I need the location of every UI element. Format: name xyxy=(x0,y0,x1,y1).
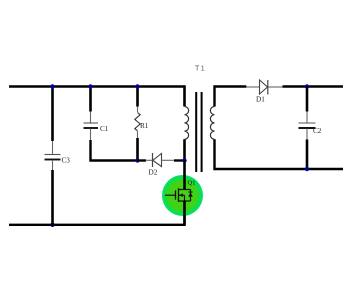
wire source lead xyxy=(183,201,186,225)
wire primary top stub xyxy=(183,85,186,106)
transistor Q1 xyxy=(165,188,193,202)
wire D2 to drain node xyxy=(174,159,185,161)
svg-text:T1: T1 xyxy=(195,66,206,73)
diode D1 xyxy=(246,80,283,95)
wire C3 bottom stub xyxy=(51,170,54,226)
svg-text:D1: D1 xyxy=(256,96,265,104)
svg-text:C1: C1 xyxy=(100,125,109,133)
node top rail junction at R1 xyxy=(135,84,139,88)
transformer T1 core xyxy=(196,92,201,172)
resistor R1 xyxy=(135,107,140,139)
wire secondary bottom stub and bottom-right rail xyxy=(215,139,344,169)
capacitor C3 xyxy=(45,141,61,170)
wire snubber to D2 xyxy=(138,159,147,161)
transformer T1 primary winding xyxy=(185,107,189,140)
wire secondary top stub and top-right rail to D1 xyxy=(215,87,247,107)
diode D2 xyxy=(146,153,176,167)
svg-text:R1: R1 xyxy=(140,122,149,130)
label Q1 xyxy=(188,180,196,187)
node top rail junction at C1 xyxy=(88,84,92,88)
wire C2 top stub xyxy=(306,87,309,112)
highlight circle around Q1 xyxy=(162,175,203,216)
svg-text:Q1: Q1 xyxy=(188,180,196,187)
label T1 xyxy=(195,66,206,73)
node drain junction xyxy=(182,158,186,162)
capacitor C1 xyxy=(84,112,99,141)
wire C2 bottom stub xyxy=(306,140,309,170)
wire R1 top stub xyxy=(136,85,139,106)
node snubber bottom junction xyxy=(135,158,139,162)
wire drain lead xyxy=(183,161,186,190)
wire top-right rail after D1 xyxy=(283,85,344,87)
transformer T1 secondary winding xyxy=(210,107,214,140)
wire primary bottom stub xyxy=(183,139,186,160)
label C2 xyxy=(313,127,322,135)
svg-text:C2: C2 xyxy=(313,127,322,135)
wire C3 top stub xyxy=(51,85,54,141)
svg-text:D2: D2 xyxy=(149,169,158,177)
label D1 xyxy=(256,96,265,104)
capacitor C2 xyxy=(299,112,316,140)
node top rail junction at C3 xyxy=(50,84,54,88)
svg-text:C3: C3 xyxy=(62,157,71,165)
wire C1 top stub xyxy=(89,85,92,111)
label C1 xyxy=(100,125,109,133)
node bottom-left junction xyxy=(50,223,54,227)
wire bottom-left rail xyxy=(9,201,185,225)
wire top-left rail xyxy=(9,85,185,87)
label D2 xyxy=(149,169,158,177)
label R1 xyxy=(140,122,149,130)
node top-right junction xyxy=(305,84,309,88)
wire R1 bottom stub xyxy=(136,138,139,161)
label C3 xyxy=(62,157,71,165)
node bottom-right junction xyxy=(305,167,309,171)
wire C1 bottom stub xyxy=(91,140,138,161)
